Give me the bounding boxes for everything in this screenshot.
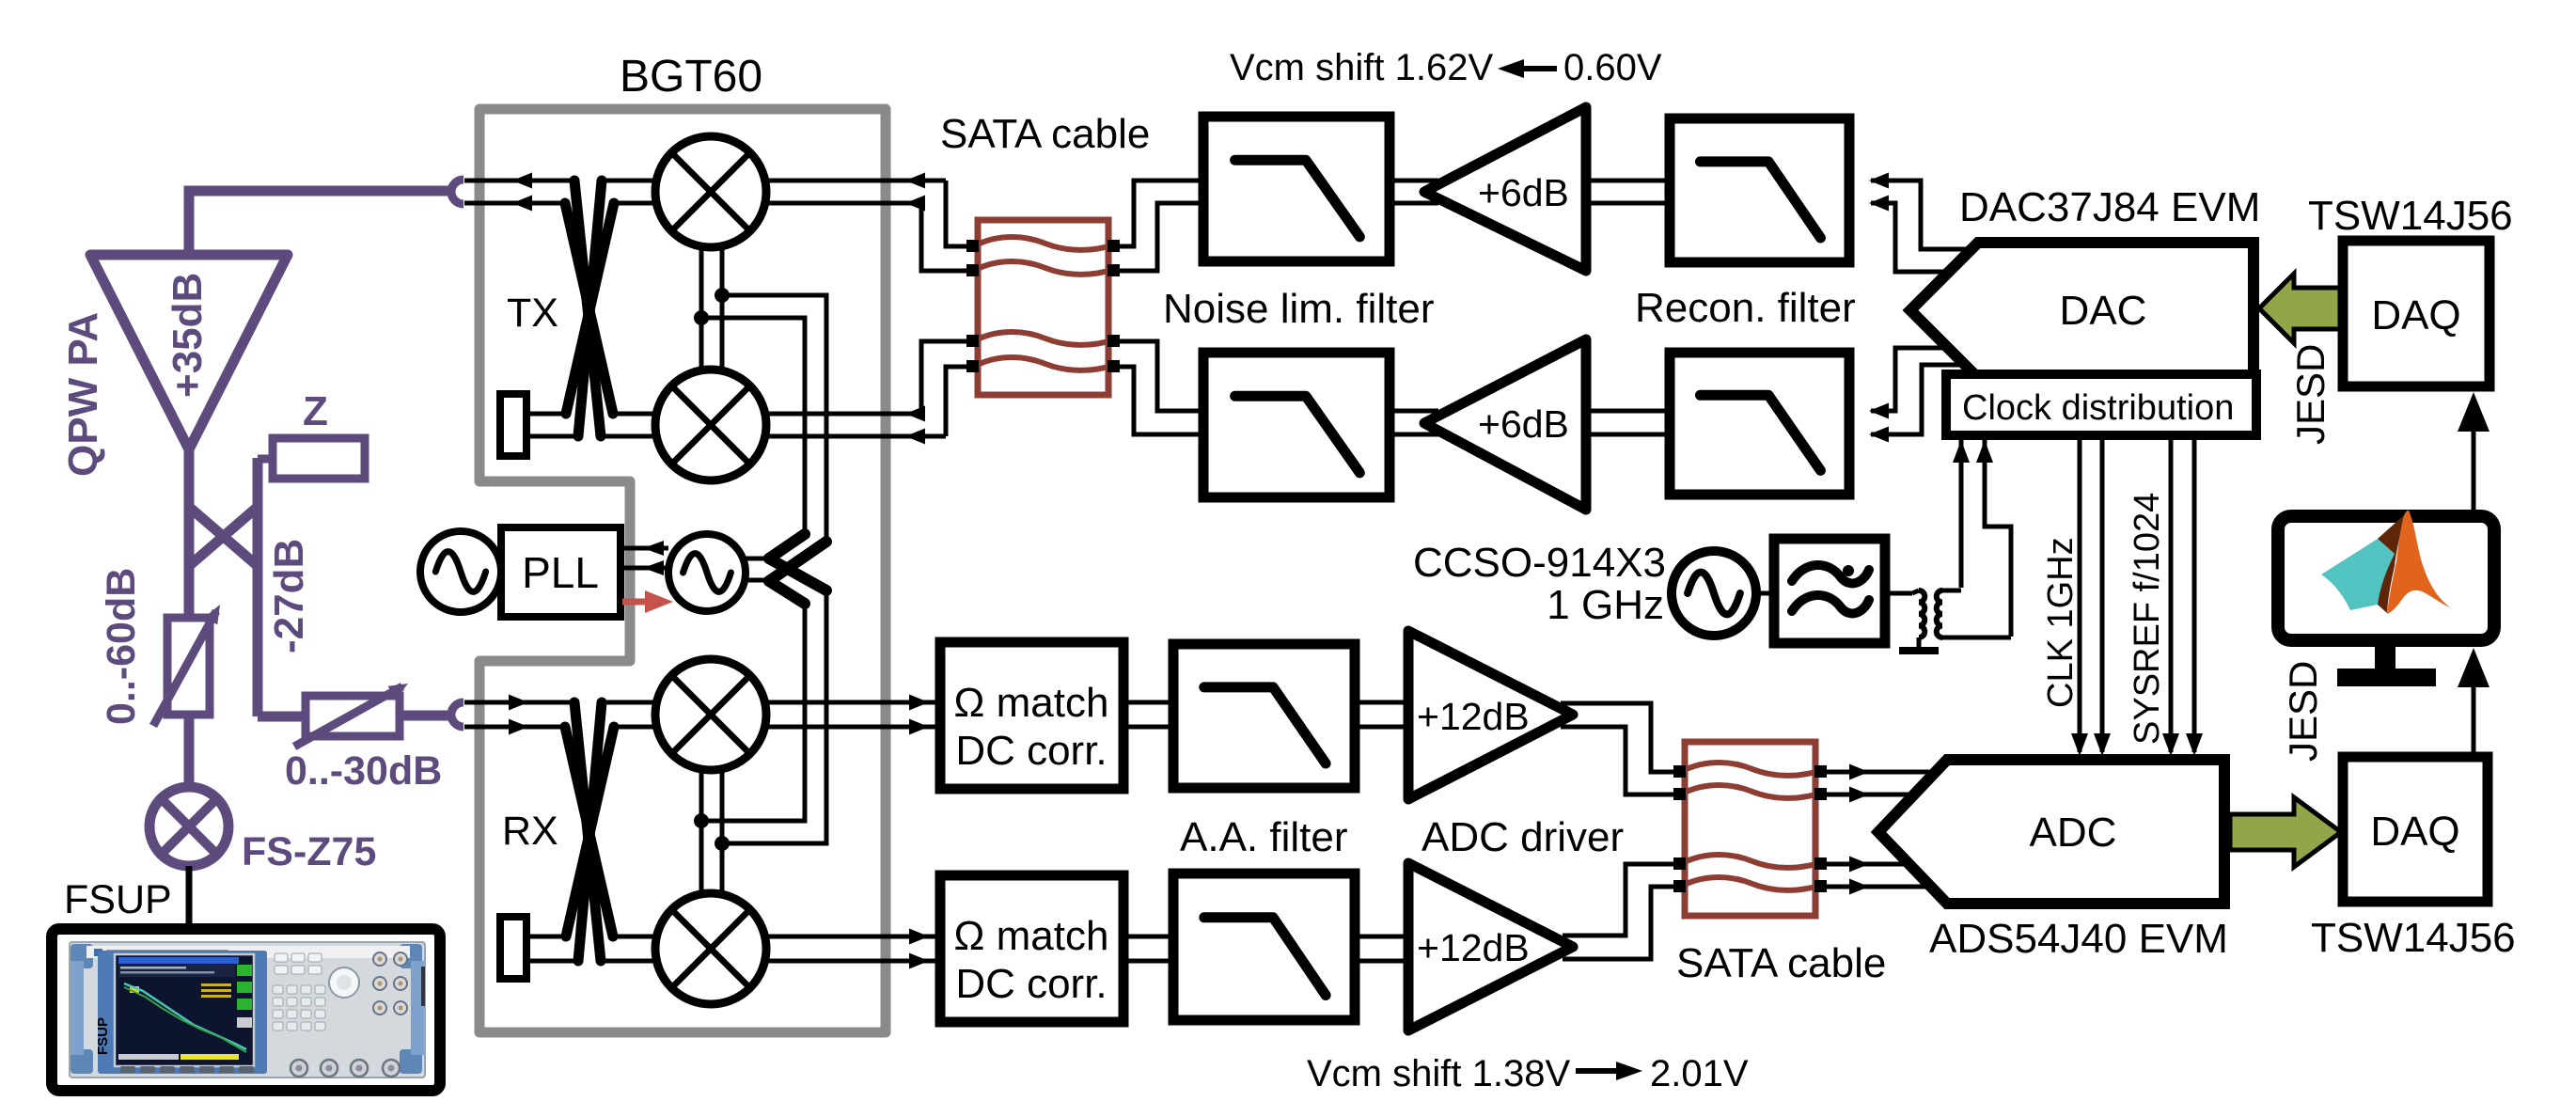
- wire +6dB I to recon: [1586, 181, 1670, 203]
- svg-text:DC corr.: DC corr.: [955, 961, 1107, 1007]
- wire balun to mixer M2: [601, 414, 658, 436]
- balun TX: [565, 181, 614, 436]
- wire QPW PA input (down from apex): [184, 449, 195, 618]
- mixer M4 (RX Q): [655, 893, 766, 1004]
- TX connector cup: [451, 180, 463, 204]
- terminator RX port: [500, 917, 526, 979]
- svg-text:DAC: DAC: [2060, 288, 2147, 334]
- anti-aliasing filter Q: [1173, 873, 1355, 1020]
- wire M3-M4 LO pair: [701, 769, 722, 895]
- DAC37J84 EVM label: [1959, 184, 2260, 230]
- FSUP label: [64, 877, 172, 922]
- wire clock filter to transformer: [1885, 591, 1912, 596]
- wire M1-M2 LO pair: [701, 246, 722, 371]
- transformer (clock coupling): [1912, 590, 2011, 649]
- wire SYSREF pair to ADC: [2162, 435, 2203, 756]
- PLL label: [522, 548, 599, 597]
- terminator TX port: [500, 394, 526, 456]
- svg-text:DAQ: DAQ: [2370, 809, 2459, 855]
- CLK 1GHz label: [2041, 537, 2081, 708]
- svg-text:Ω match: Ω match: [954, 913, 1109, 959]
- Noise lim. filter label: [1163, 286, 1435, 332]
- clock bandpass filter: [1774, 539, 1885, 643]
- svg-text:A.A. filter: A.A. filter: [1180, 814, 1348, 860]
- ADC driver label: [1422, 814, 1624, 860]
- +35dB label: [165, 273, 211, 398]
- svg-text:+6dB: +6dB: [1478, 171, 1569, 214]
- SATA cable 2 label: [1676, 940, 1886, 986]
- wire CCSO to clock filter: [1756, 591, 1774, 596]
- svg-text:CCSO-914X3: CCSO-914X3: [1413, 540, 1666, 586]
- ground: [1899, 647, 1939, 654]
- RX section label: [502, 809, 558, 854]
- red tune arrow: [622, 590, 673, 613]
- svg-text:RX: RX: [502, 809, 558, 854]
- mixer M3 (RX I): [655, 659, 766, 770]
- svg-text:TX: TX: [507, 291, 558, 336]
- svg-text:Vcm shift 1.38V: Vcm shift 1.38V: [1307, 1053, 1570, 1094]
- svg-text:FSUP: FSUP: [95, 1017, 111, 1055]
- svg-text:Z: Z: [303, 388, 328, 434]
- svg-text:0.60V: 0.60V: [1563, 47, 1662, 88]
- svg-text:+12dB: +12dB: [1417, 695, 1530, 738]
- wire RX in pair upper: [464, 700, 936, 705]
- wire +12dB Q to SATA2: [1563, 864, 1681, 936]
- wire SATA2 to ADC: [1827, 764, 1936, 780]
- amplifier +12dB I: [1408, 631, 1573, 799]
- wire RX terminator to balun: [526, 936, 578, 961]
- svg-text:SYSREF f/1024: SYSREF f/1024: [2128, 493, 2167, 745]
- anti-aliasing filter I: [1173, 644, 1355, 788]
- svg-text:QPW PA: QPW PA: [60, 312, 106, 477]
- svg-text:DAQ: DAQ: [2371, 292, 2460, 338]
- PLL box: [501, 527, 620, 617]
- oscillator CCSO: [1672, 551, 1756, 636]
- svg-text:PLL: PLL: [522, 548, 599, 597]
- arrows RX to omega match: [909, 695, 929, 735]
- svg-text:+35dB: +35dB: [165, 273, 211, 398]
- wire LO branch right upper: [722, 295, 826, 537]
- svg-text:DAC37J84 EVM: DAC37J84 EVM: [1959, 184, 2260, 230]
- FS-Z75 label: [242, 829, 376, 874]
- SATA cable 1 label: [940, 111, 1150, 157]
- wire omega to AA filter Q: [1123, 936, 1173, 961]
- monitor (MATLAB): [2278, 511, 2494, 686]
- wire attenuator to mixer FS-Z75: [184, 715, 195, 790]
- svg-text:Noise lim. filter: Noise lim. filter: [1163, 286, 1435, 332]
- Vcm shift bottom label: [1307, 1053, 1749, 1094]
- RX connector cup: [451, 702, 463, 727]
- node TX LO tap 2: [694, 310, 709, 325]
- wire LO branch right lower: [701, 318, 805, 529]
- TX section label: [507, 291, 558, 336]
- LO distribution crossover: [769, 534, 826, 604]
- reconstruction filter I: [1670, 118, 1849, 262]
- omega match / DC corr box Q: [940, 875, 1123, 1022]
- mixer M2 (TX Q): [655, 370, 766, 480]
- node TX LO tap 1: [715, 288, 730, 303]
- wire RX in pair lower: [464, 725, 936, 730]
- DAQ box (ADC side): [2343, 757, 2488, 902]
- wire PLL feedback pair: [620, 541, 668, 575]
- svg-text:ADC driver: ADC driver: [1422, 814, 1624, 860]
- node RX LO tap 1: [694, 813, 709, 828]
- wire TX out pair lower: [464, 203, 974, 271]
- svg-text:FSUP: FSUP: [64, 877, 172, 922]
- wire balun to mixer M4: [601, 936, 658, 961]
- wire TX out pair upper: [464, 181, 974, 246]
- wire M2 outputs to SATA: [766, 341, 974, 414]
- reconstruction filter Q: [1670, 353, 1849, 495]
- wire LO down to RX right: [726, 588, 826, 843]
- svg-text:Vcm shift 1.62V: Vcm shift 1.62V: [1230, 47, 1493, 88]
- svg-text:1 GHz: 1 GHz: [1547, 582, 1664, 628]
- oscillator VCO: [668, 534, 746, 611]
- A.A. filter label: [1180, 814, 1348, 860]
- svg-text:0..-60dB: 0..-60dB: [99, 568, 144, 725]
- variable attenuator 0..-30dB: [294, 677, 412, 747]
- arrows into TX mixers from SATA: [905, 173, 925, 212]
- SATA cable 1: [966, 220, 1120, 395]
- BGT60 chip outline: [479, 109, 886, 1032]
- 0..-60dB label: [99, 568, 144, 725]
- JESD arrow to DAC: [2259, 274, 2343, 343]
- svg-text:2.01V: 2.01V: [1650, 1053, 1749, 1094]
- wire SATA1 right to noise filter (upper pair): [1120, 181, 1203, 246]
- arrows TX out (left): [512, 173, 532, 212]
- svg-text:BGT60: BGT60: [620, 52, 762, 102]
- amplifier +6dB I: [1424, 107, 1586, 271]
- wire Z branch: [258, 458, 273, 716]
- amplifier +12dB Q: [1408, 863, 1573, 1030]
- svg-text:SATA cable: SATA cable: [940, 111, 1150, 157]
- directional coupler cross: [189, 507, 258, 566]
- wire LO down to RX left: [703, 600, 805, 821]
- wire terminator to balun: [526, 414, 578, 436]
- ADS54J40 EVM label: [1929, 916, 2228, 962]
- wire SATA1 right to noise filter (lower pair): [1120, 341, 1203, 411]
- wire omega to AA filter I: [1123, 702, 1173, 727]
- -27dB label: [266, 539, 312, 653]
- CCSO-914X3 label: [1413, 540, 1666, 586]
- svg-text:Clock distribution: Clock distribution: [1962, 388, 2234, 428]
- svg-text:FS-Z75: FS-Z75: [242, 829, 376, 874]
- JESD arrow to DAQ2: [2230, 797, 2341, 867]
- wire DAQ2 to monitor (up arrow): [2458, 648, 2490, 757]
- JESD label (ADC link): [2281, 661, 2325, 762]
- svg-text:DC corr.: DC corr.: [955, 728, 1107, 774]
- wire coupler to 0..-30dB attenuator: [258, 712, 306, 722]
- wire 0..-30dB to RX port: [400, 711, 448, 721]
- wire QPW PA output to TX port: [189, 191, 450, 255]
- BGT60 label: [620, 52, 762, 102]
- wire noise filter I to +6dB: [1390, 181, 1438, 203]
- wire noise filter Q to +6dB: [1390, 411, 1438, 434]
- wire +6dB Q to recon: [1586, 411, 1670, 434]
- amplifier QPW PA (+35dB): [90, 255, 288, 449]
- JESD label (DAC link): [2288, 344, 2333, 445]
- SATA cable 2: [1673, 742, 1827, 916]
- svg-text:SATA cable: SATA cable: [1676, 940, 1886, 986]
- Z label: [303, 388, 328, 434]
- Vcm shift top label: [1230, 47, 1662, 88]
- DAQ box (DAC side): [2343, 241, 2490, 386]
- amplifier +6dB Q: [1424, 339, 1586, 510]
- wire DAC to recon I: [1869, 173, 1974, 250]
- svg-text:ADC: ADC: [2030, 810, 2117, 856]
- QPW PA label: [60, 312, 106, 477]
- Recon. filter label: [1635, 285, 1856, 331]
- svg-text:Ω match: Ω match: [954, 680, 1109, 726]
- mixer M1 (TX I): [655, 136, 766, 247]
- mixer FS-Z75: [149, 787, 228, 866]
- DAC block: [1910, 243, 2254, 378]
- svg-text:TSW14J56: TSW14J56: [2311, 915, 2516, 961]
- wire clock to transformer pair: [1953, 440, 1970, 588]
- TSW14J56 label (top): [2308, 193, 2513, 239]
- svg-text:JESD: JESD: [2288, 344, 2333, 445]
- wire M4 outputs to omega match: [766, 936, 936, 961]
- wire VCO outputs: [746, 558, 771, 580]
- svg-text:+12dB: +12dB: [1417, 926, 1530, 969]
- svg-text:0..-30dB: 0..-30dB: [285, 748, 442, 794]
- balun RX: [565, 702, 614, 961]
- TSW14J56 label (bottom): [2311, 915, 2516, 961]
- svg-text:TSW14J56: TSW14J56: [2308, 193, 2513, 239]
- arrows RX in: [509, 695, 528, 735]
- wire DAC to recon Q: [1869, 348, 1946, 419]
- svg-text:-27dB: -27dB: [266, 539, 312, 653]
- svg-text:Recon. filter: Recon. filter: [1635, 285, 1856, 331]
- noise limiting filter I: [1203, 117, 1390, 261]
- ADC block: [1878, 760, 2224, 904]
- SYSREF f/1024 label: [2128, 493, 2167, 745]
- FSUP instrument photo: [52, 929, 440, 1091]
- wire AA to +12dB Q: [1355, 936, 1408, 961]
- wire CLK pair to ADC: [2071, 435, 2111, 756]
- 0..-30dB label: [285, 748, 442, 794]
- arrows into mixer M2: [905, 406, 925, 445]
- variable attenuator 0..-60dB: [153, 601, 227, 726]
- omega match / DC corr box I: [940, 642, 1123, 789]
- clock distribution box: [1946, 374, 2256, 435]
- svg-text:ADS54J40 EVM: ADS54J40 EVM: [1929, 916, 2228, 962]
- wire FS-Z75 to FSUP: [186, 866, 193, 931]
- 1 GHz label: [1547, 582, 1664, 628]
- impedance Z box: [273, 438, 365, 479]
- oscillator crystal (reference): [420, 531, 501, 612]
- node RX LO tap 2: [715, 836, 730, 851]
- noise limiting filter Q: [1203, 353, 1390, 497]
- svg-text:JESD: JESD: [2281, 661, 2325, 762]
- wire monitor to DAQ (up arrow): [2458, 392, 2490, 512]
- wire AA to +12dB I: [1355, 702, 1408, 727]
- wire +12dB I to SATA2: [1561, 703, 1681, 772]
- svg-text:CLK 1GHz: CLK 1GHz: [2041, 537, 2081, 708]
- svg-text:+6dB: +6dB: [1478, 402, 1569, 446]
- arrows M4 outputs: [909, 929, 929, 969]
